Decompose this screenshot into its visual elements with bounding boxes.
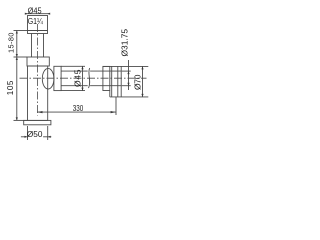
wall flange front face bbox=[117, 66, 119, 97]
Ø50 dim line right part bbox=[43, 136, 51, 138]
horizontal centerline bbox=[20, 77, 147, 79]
arrowhead 15-80 bottom bbox=[16, 54, 18, 57]
outlet nut (left) bbox=[54, 66, 61, 90]
wall nut (right) bbox=[103, 66, 110, 90]
svg-text:105: 105 bbox=[6, 80, 15, 95]
shared extension at collar top bbox=[14, 56, 28, 58]
wall flange outer edge bbox=[120, 66, 122, 97]
arrowhead 330 left bbox=[37, 111, 42, 113]
arrowhead 15-80 top bbox=[16, 31, 18, 34]
arrowhead Ø31.75 bottom bbox=[127, 83, 129, 86]
elbow boss ellipse bbox=[42, 68, 54, 89]
arrowhead Ø70 bottom bbox=[141, 94, 143, 97]
Ø45 nut extension line top bbox=[61, 65, 85, 67]
15-80 dim line bbox=[16, 31, 18, 58]
horizontal pipe bottom line (left of break) bbox=[61, 85, 88, 87]
arrowhead Ø45 top right bbox=[47, 13, 50, 15]
dimension Ø45 top dim line bbox=[26, 13, 49, 15]
bottle collar nut bbox=[27, 57, 49, 66]
svg-text:15-80: 15-80 bbox=[6, 33, 15, 54]
Ø31.75 extension top bbox=[122, 70, 131, 72]
bottle body bbox=[28, 66, 48, 120]
flange top line / Ø70 extension top bbox=[103, 65, 148, 67]
tailpiece pipe right wall bbox=[43, 34, 45, 58]
330 dim line bbox=[37, 111, 116, 113]
connector inner ring line bbox=[28, 30, 48, 32]
horizontal pipe bottom line (right of break) bbox=[90, 85, 121, 87]
Ø50 dim line left part bbox=[21, 136, 27, 138]
flange centerline extension bbox=[115, 97, 117, 115]
svg-text:Ø45: Ø45 bbox=[28, 6, 42, 16]
105 extension bottom / body bottom bbox=[14, 119, 28, 121]
Ø70 dim line bbox=[142, 66, 144, 97]
wall flange ring bbox=[111, 66, 113, 97]
tailpiece pipe left wall bbox=[31, 34, 33, 58]
Ø45 nut dim line bbox=[82, 66, 84, 90]
horizontal pipe top line (right of break) bbox=[90, 70, 121, 72]
arrowhead 105 top bbox=[16, 57, 18, 60]
Ø50 extension right bbox=[47, 126, 49, 140]
Ø31.75 extension bottom bbox=[122, 85, 131, 87]
svg-text:Ø50: Ø50 bbox=[27, 129, 43, 139]
svg-text:Ø70: Ø70 bbox=[132, 74, 142, 90]
arrowhead Ø45 nut bottom bbox=[81, 88, 83, 91]
arrowhead 105 bottom bbox=[16, 117, 18, 120]
arrowhead 330 right bbox=[111, 111, 116, 113]
arrowhead Ø70 top bbox=[141, 66, 143, 69]
arrowhead Ø50 right bbox=[48, 136, 51, 138]
arrowhead Ø31.75 top bbox=[127, 71, 129, 74]
Ø45 nut extension line bottom bbox=[61, 90, 85, 92]
arrowhead Ø50 left bbox=[25, 136, 28, 138]
vertical centerline bbox=[37, 24, 39, 116]
105 dim line bbox=[16, 57, 18, 120]
svg-text:Ø31.75: Ø31.75 bbox=[120, 28, 129, 56]
svg-text:Ø45: Ø45 bbox=[72, 69, 82, 87]
Ø50 extension left bbox=[27, 126, 29, 140]
15-80 extension top bbox=[14, 30, 28, 32]
bottle bottom cap bbox=[24, 120, 51, 124]
arrowhead Ø45 nut top bbox=[81, 66, 83, 69]
flange bottom line / Ø70 extension bottom bbox=[110, 96, 149, 98]
G 1 1/4 connector box bbox=[28, 16, 48, 34]
horizontal pipe top line (left of break) bbox=[61, 70, 88, 72]
pipe break squiggle bbox=[89, 68, 90, 88]
svg-text:G1¼: G1¼ bbox=[28, 17, 43, 26]
wall flange back edge lower segment bbox=[109, 91, 111, 97]
arrowhead Ø45 top left bbox=[25, 13, 28, 15]
svg-text:330: 330 bbox=[73, 103, 84, 113]
Ø31.75 dim line bbox=[128, 60, 130, 90]
